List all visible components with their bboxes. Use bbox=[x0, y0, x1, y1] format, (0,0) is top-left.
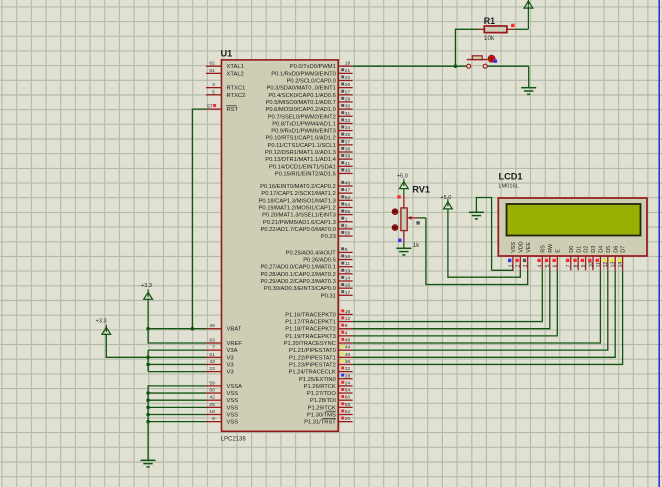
svg-text:P0.4/SCK0/CAP0.1/AD0.6: P0.4/SCK0/CAP0.1/AD0.6 bbox=[268, 93, 335, 99]
svg-text:12: 12 bbox=[345, 316, 351, 322]
svg-text:LM016L: LM016L bbox=[499, 184, 519, 190]
svg-text:RS: RS bbox=[540, 245, 546, 253]
svg-text:D4: D4 bbox=[599, 246, 605, 253]
svg-text:33: 33 bbox=[345, 118, 351, 124]
svg-text:P1.19/TRACEPKT3: P1.19/TRACEPKT3 bbox=[285, 334, 336, 340]
svg-text:11: 11 bbox=[345, 261, 350, 267]
svg-text:V3: V3 bbox=[227, 355, 234, 361]
svg-text:29: 29 bbox=[345, 96, 351, 102]
svg-text:56: 56 bbox=[345, 402, 351, 408]
svg-text:11: 11 bbox=[596, 262, 602, 267]
svg-text:30: 30 bbox=[345, 104, 351, 110]
svg-text:P0.10/RTS1/CAP1.0/AD1.2: P0.10/RTS1/CAP1.0/AD1.2 bbox=[266, 136, 336, 142]
svg-text:45: 45 bbox=[345, 168, 351, 174]
svg-text:P0.22/AD1.7/CAP0.0/MAT0.0: P0.22/AD1.7/CAP0.0/MAT0.0 bbox=[260, 227, 335, 233]
svg-text:VSS: VSS bbox=[227, 405, 239, 411]
svg-text:3: 3 bbox=[212, 82, 215, 88]
svg-text:26: 26 bbox=[345, 82, 351, 88]
svg-text:44: 44 bbox=[345, 345, 351, 351]
svg-text:10: 10 bbox=[588, 262, 594, 268]
svg-text:1: 1 bbox=[508, 264, 514, 267]
svg-text:D5: D5 bbox=[606, 246, 612, 253]
svg-text:64: 64 bbox=[345, 388, 351, 394]
svg-text:10: 10 bbox=[345, 254, 351, 260]
svg-text:+3.3: +3.3 bbox=[95, 319, 106, 325]
svg-text:21: 21 bbox=[345, 68, 351, 74]
svg-text:P0.1/RxD0/PWM3/EINT0: P0.1/RxD0/PWM3/EINT0 bbox=[271, 71, 336, 77]
svg-text:38: 38 bbox=[345, 147, 351, 153]
svg-text:52: 52 bbox=[345, 409, 351, 415]
svg-text:4: 4 bbox=[345, 330, 348, 336]
svg-text:P1.27/TDO: P1.27/TDO bbox=[307, 391, 336, 397]
svg-text:P0.27/AD0.0/CAP0.1/MAT0.1: P0.27/AD0.0/CAP0.1/MAT0.1 bbox=[260, 265, 335, 271]
svg-text:54: 54 bbox=[345, 202, 351, 208]
svg-text:+5.0: +5.0 bbox=[397, 174, 408, 180]
svg-text:7: 7 bbox=[212, 345, 215, 351]
svg-text:25: 25 bbox=[209, 402, 215, 408]
svg-text:P1.28/TDI: P1.28/TDI bbox=[310, 398, 336, 404]
svg-text:P1.29/TCK: P1.29/TCK bbox=[308, 405, 336, 411]
svg-text:D7: D7 bbox=[621, 246, 627, 253]
svg-text:P0.12/DSR1/MAT1.0/AD1.3: P0.12/DSR1/MAT1.0/AD1.3 bbox=[265, 150, 336, 156]
svg-text:P0.23: P0.23 bbox=[321, 234, 336, 240]
svg-text:VSS: VSS bbox=[511, 242, 517, 253]
svg-text:V3A: V3A bbox=[227, 348, 238, 354]
svg-text:U1: U1 bbox=[221, 48, 233, 58]
svg-text:13: 13 bbox=[611, 262, 617, 268]
svg-text:P0.18/CAP1.3/MISO1/MAT1.3: P0.18/CAP1.3/MISO1/MAT1.3 bbox=[259, 198, 336, 204]
svg-text:D0: D0 bbox=[569, 246, 575, 253]
svg-text:D6: D6 bbox=[613, 246, 619, 253]
svg-text:RV1: RV1 bbox=[412, 185, 430, 195]
svg-text:P0.21/PWM5/AD1.6/CAP1.3: P0.21/PWM5/AD1.6/CAP1.3 bbox=[263, 220, 336, 226]
svg-text:40: 40 bbox=[345, 352, 351, 358]
svg-text:58: 58 bbox=[345, 231, 351, 237]
svg-text:41: 41 bbox=[345, 161, 351, 167]
svg-text:P0.3/SDA0/MAT0..0/EINT1: P0.3/SDA0/MAT0..0/EINT1 bbox=[267, 86, 336, 92]
svg-text:P0.7/SSEL0/PWM2/EINT2: P0.7/SSEL0/PWM2/EINT2 bbox=[268, 114, 336, 120]
svg-text:P0.25/AD0.4/AOUT: P0.25/AD0.4/AOUT bbox=[286, 250, 337, 256]
svg-text:2: 2 bbox=[345, 223, 348, 229]
svg-text:4: 4 bbox=[538, 264, 544, 267]
svg-text:20: 20 bbox=[345, 416, 351, 422]
svg-text:32: 32 bbox=[345, 366, 351, 372]
svg-text:42: 42 bbox=[209, 395, 215, 401]
svg-text:P0.2/SCL0/CAP0.0: P0.2/SCL0/CAP0.0 bbox=[287, 79, 336, 85]
svg-text:9: 9 bbox=[345, 247, 348, 253]
svg-text:V3: V3 bbox=[227, 362, 234, 368]
svg-text:15: 15 bbox=[345, 283, 351, 289]
svg-text:P0.20/MAT1.3/SSEL1/EINT3: P0.20/MAT1.3/SSEL1/EINT3 bbox=[262, 213, 336, 219]
svg-text:LCD1: LCD1 bbox=[499, 172, 523, 182]
svg-text:P1.17/TRACEPKT1: P1.17/TRACEPKT1 bbox=[285, 320, 336, 326]
svg-text:D2: D2 bbox=[584, 246, 590, 253]
svg-text:8: 8 bbox=[345, 323, 348, 329]
svg-text:VBAT: VBAT bbox=[227, 327, 242, 333]
svg-text:5: 5 bbox=[545, 264, 551, 267]
svg-text:57: 57 bbox=[207, 104, 213, 110]
svg-text:63: 63 bbox=[209, 338, 215, 344]
svg-text:VREF: VREF bbox=[227, 341, 243, 347]
svg-text:P1.16/TRACEPKT0: P1.16/TRACEPKT0 bbox=[285, 312, 336, 318]
svg-text:P0.30/AD0.3/EINT3/CAP0.0: P0.30/AD0.3/EINT3/CAP0.0 bbox=[264, 286, 336, 292]
svg-text:P1.24/TRACECLK: P1.24/TRACECLK bbox=[288, 370, 335, 376]
svg-text:9: 9 bbox=[581, 264, 587, 267]
svg-text:RST: RST bbox=[227, 107, 239, 113]
svg-text:V3: V3 bbox=[227, 370, 234, 376]
svg-text:P0.31: P0.31 bbox=[321, 293, 336, 299]
svg-text:VSS: VSS bbox=[227, 398, 239, 404]
svg-text:17: 17 bbox=[345, 290, 351, 296]
svg-text:P0.16/EINT0/MAT0.2/CAP0.2: P0.16/EINT0/MAT0.2/CAP0.2 bbox=[260, 184, 336, 190]
svg-text:P1.25/EXTIN0: P1.25/EXTIN0 bbox=[299, 377, 336, 383]
svg-text:36: 36 bbox=[345, 359, 351, 365]
svg-text:14: 14 bbox=[345, 276, 351, 282]
svg-text:14: 14 bbox=[618, 262, 624, 268]
svg-text:P0.11/CTS1/CAP1.1/SCL1: P0.11/CTS1/CAP1.1/SCL1 bbox=[268, 143, 336, 149]
svg-text:RTXC1: RTXC1 bbox=[227, 86, 246, 92]
svg-text:35: 35 bbox=[345, 132, 351, 138]
svg-text:16: 16 bbox=[345, 309, 351, 315]
svg-text:55: 55 bbox=[345, 209, 351, 215]
svg-text:2: 2 bbox=[516, 264, 522, 267]
svg-text:P0.14/DCD1/EINT1/SDA1: P0.14/DCD1/EINT1/SDA1 bbox=[269, 164, 336, 170]
svg-text:28: 28 bbox=[345, 373, 351, 379]
svg-text:P1.30/TMS: P1.30/TMS bbox=[307, 413, 336, 419]
svg-text:P1.26/RTCK: P1.26/RTCK bbox=[304, 384, 336, 390]
svg-text:12: 12 bbox=[603, 262, 609, 268]
svg-text:VEE: VEE bbox=[526, 242, 532, 253]
svg-text:XTAL2: XTAL2 bbox=[227, 71, 244, 77]
svg-text:P0.0/TxD0/PWM1: P0.0/TxD0/PWM1 bbox=[290, 64, 336, 70]
svg-text:6: 6 bbox=[212, 416, 215, 422]
svg-text:VSSA: VSSA bbox=[227, 384, 243, 390]
svg-text:62: 62 bbox=[209, 61, 215, 67]
svg-text:13: 13 bbox=[345, 268, 351, 274]
svg-text:22: 22 bbox=[345, 75, 351, 81]
svg-text:+5.0: +5.0 bbox=[440, 195, 451, 201]
svg-text:51: 51 bbox=[209, 352, 215, 358]
svg-text:P0.5/MISO0/MAT0.1/AD0.7: P0.5/MISO0/MAT0.1/AD0.7 bbox=[266, 100, 336, 106]
svg-text:P0.13/DTR1/MAT1.1/AD1.4: P0.13/DTR1/MAT1.1/AD1.4 bbox=[265, 157, 336, 163]
svg-text:RTXC2: RTXC2 bbox=[227, 93, 246, 99]
svg-text:7: 7 bbox=[566, 264, 572, 267]
svg-text:1k: 1k bbox=[413, 242, 421, 249]
svg-text:P1.18/TRACEPKT2: P1.18/TRACEPKT2 bbox=[285, 327, 336, 333]
svg-text:P1.22/PIPESTAT1: P1.22/PIPESTAT1 bbox=[289, 355, 336, 361]
svg-text:R1: R1 bbox=[484, 16, 495, 26]
svg-text:27: 27 bbox=[345, 89, 351, 95]
svg-text:18: 18 bbox=[209, 409, 215, 415]
svg-text:8: 8 bbox=[574, 264, 580, 267]
svg-text:VSS: VSS bbox=[227, 420, 239, 426]
svg-text:VDD: VDD bbox=[518, 241, 524, 252]
svg-text:53: 53 bbox=[345, 195, 351, 201]
svg-text:P1.20/TRACESYNC: P1.20/TRACESYNC bbox=[284, 341, 336, 347]
svg-text:43: 43 bbox=[209, 359, 215, 365]
svg-text:49: 49 bbox=[209, 323, 215, 329]
svg-text:24: 24 bbox=[345, 380, 351, 386]
svg-text:P1.23/PIPESTAT2: P1.23/PIPESTAT2 bbox=[289, 362, 336, 368]
svg-text:P0.9/RxD1/PWM6/EINT3: P0.9/RxD1/PWM6/EINT3 bbox=[271, 129, 336, 135]
svg-text:LPC2138: LPC2138 bbox=[221, 436, 247, 442]
svg-text:P0.8/TxD1/PWM4/AD1.1: P0.8/TxD1/PWM4/AD1.1 bbox=[272, 121, 336, 127]
svg-text:RW: RW bbox=[548, 244, 554, 253]
svg-text:P0.19/MAT1.2/MOSI1/CAP1.2: P0.19/MAT1.2/MOSI1/CAP1.2 bbox=[259, 205, 336, 211]
svg-text:XTAL1: XTAL1 bbox=[227, 64, 244, 70]
svg-text:50: 50 bbox=[209, 388, 215, 394]
svg-text:P0.6/MOSI0/CAP0.2/AD1.0: P0.6/MOSI0/CAP0.2/AD1.0 bbox=[265, 107, 335, 113]
svg-text:59: 59 bbox=[209, 380, 215, 386]
svg-text:61: 61 bbox=[209, 68, 215, 74]
svg-text:+3.3: +3.3 bbox=[141, 283, 152, 289]
svg-text:P0.29/AD0.2/CAP0.3/MAT0.3: P0.29/AD0.2/CAP0.3/MAT0.3 bbox=[260, 279, 335, 285]
svg-text:6: 6 bbox=[553, 264, 559, 267]
svg-text:39: 39 bbox=[345, 154, 351, 160]
svg-text:D1: D1 bbox=[576, 246, 582, 253]
svg-text:VSS: VSS bbox=[227, 391, 239, 397]
svg-text:37: 37 bbox=[345, 139, 351, 145]
svg-text:P0.26/AD0.5: P0.26/AD0.5 bbox=[303, 258, 336, 264]
svg-text:P1.31/TRST: P1.31/TRST bbox=[304, 420, 336, 426]
svg-text:47: 47 bbox=[345, 188, 351, 194]
svg-text:P0.15/RI1/EINT2/AD1.5: P0.15/RI1/EINT2/AD1.5 bbox=[275, 171, 336, 177]
svg-text:E: E bbox=[555, 249, 561, 253]
svg-text:3: 3 bbox=[523, 264, 529, 267]
svg-text:P0.17/CAP1.2/SCK1/MAT1.2: P0.17/CAP1.2/SCK1/MAT1.2 bbox=[261, 191, 335, 197]
svg-text:60: 60 bbox=[345, 395, 351, 401]
svg-text:48: 48 bbox=[345, 338, 351, 344]
svg-text:5: 5 bbox=[212, 89, 215, 95]
svg-text:34: 34 bbox=[345, 125, 351, 131]
svg-text:19: 19 bbox=[345, 61, 351, 67]
svg-text:P0.28/AD0.1/CAP0.2/MAT0.2: P0.28/AD0.1/CAP0.2/MAT0.2 bbox=[260, 272, 335, 278]
svg-text:VSS: VSS bbox=[227, 413, 239, 419]
svg-text:D3: D3 bbox=[591, 246, 597, 253]
svg-text:31: 31 bbox=[345, 111, 351, 117]
svg-text:46: 46 bbox=[345, 181, 351, 187]
svg-text:23: 23 bbox=[209, 366, 215, 372]
svg-text:10k: 10k bbox=[484, 35, 495, 42]
svg-text:1: 1 bbox=[345, 216, 348, 222]
svg-text:P1.21/PIPESTAT0: P1.21/PIPESTAT0 bbox=[289, 348, 336, 354]
